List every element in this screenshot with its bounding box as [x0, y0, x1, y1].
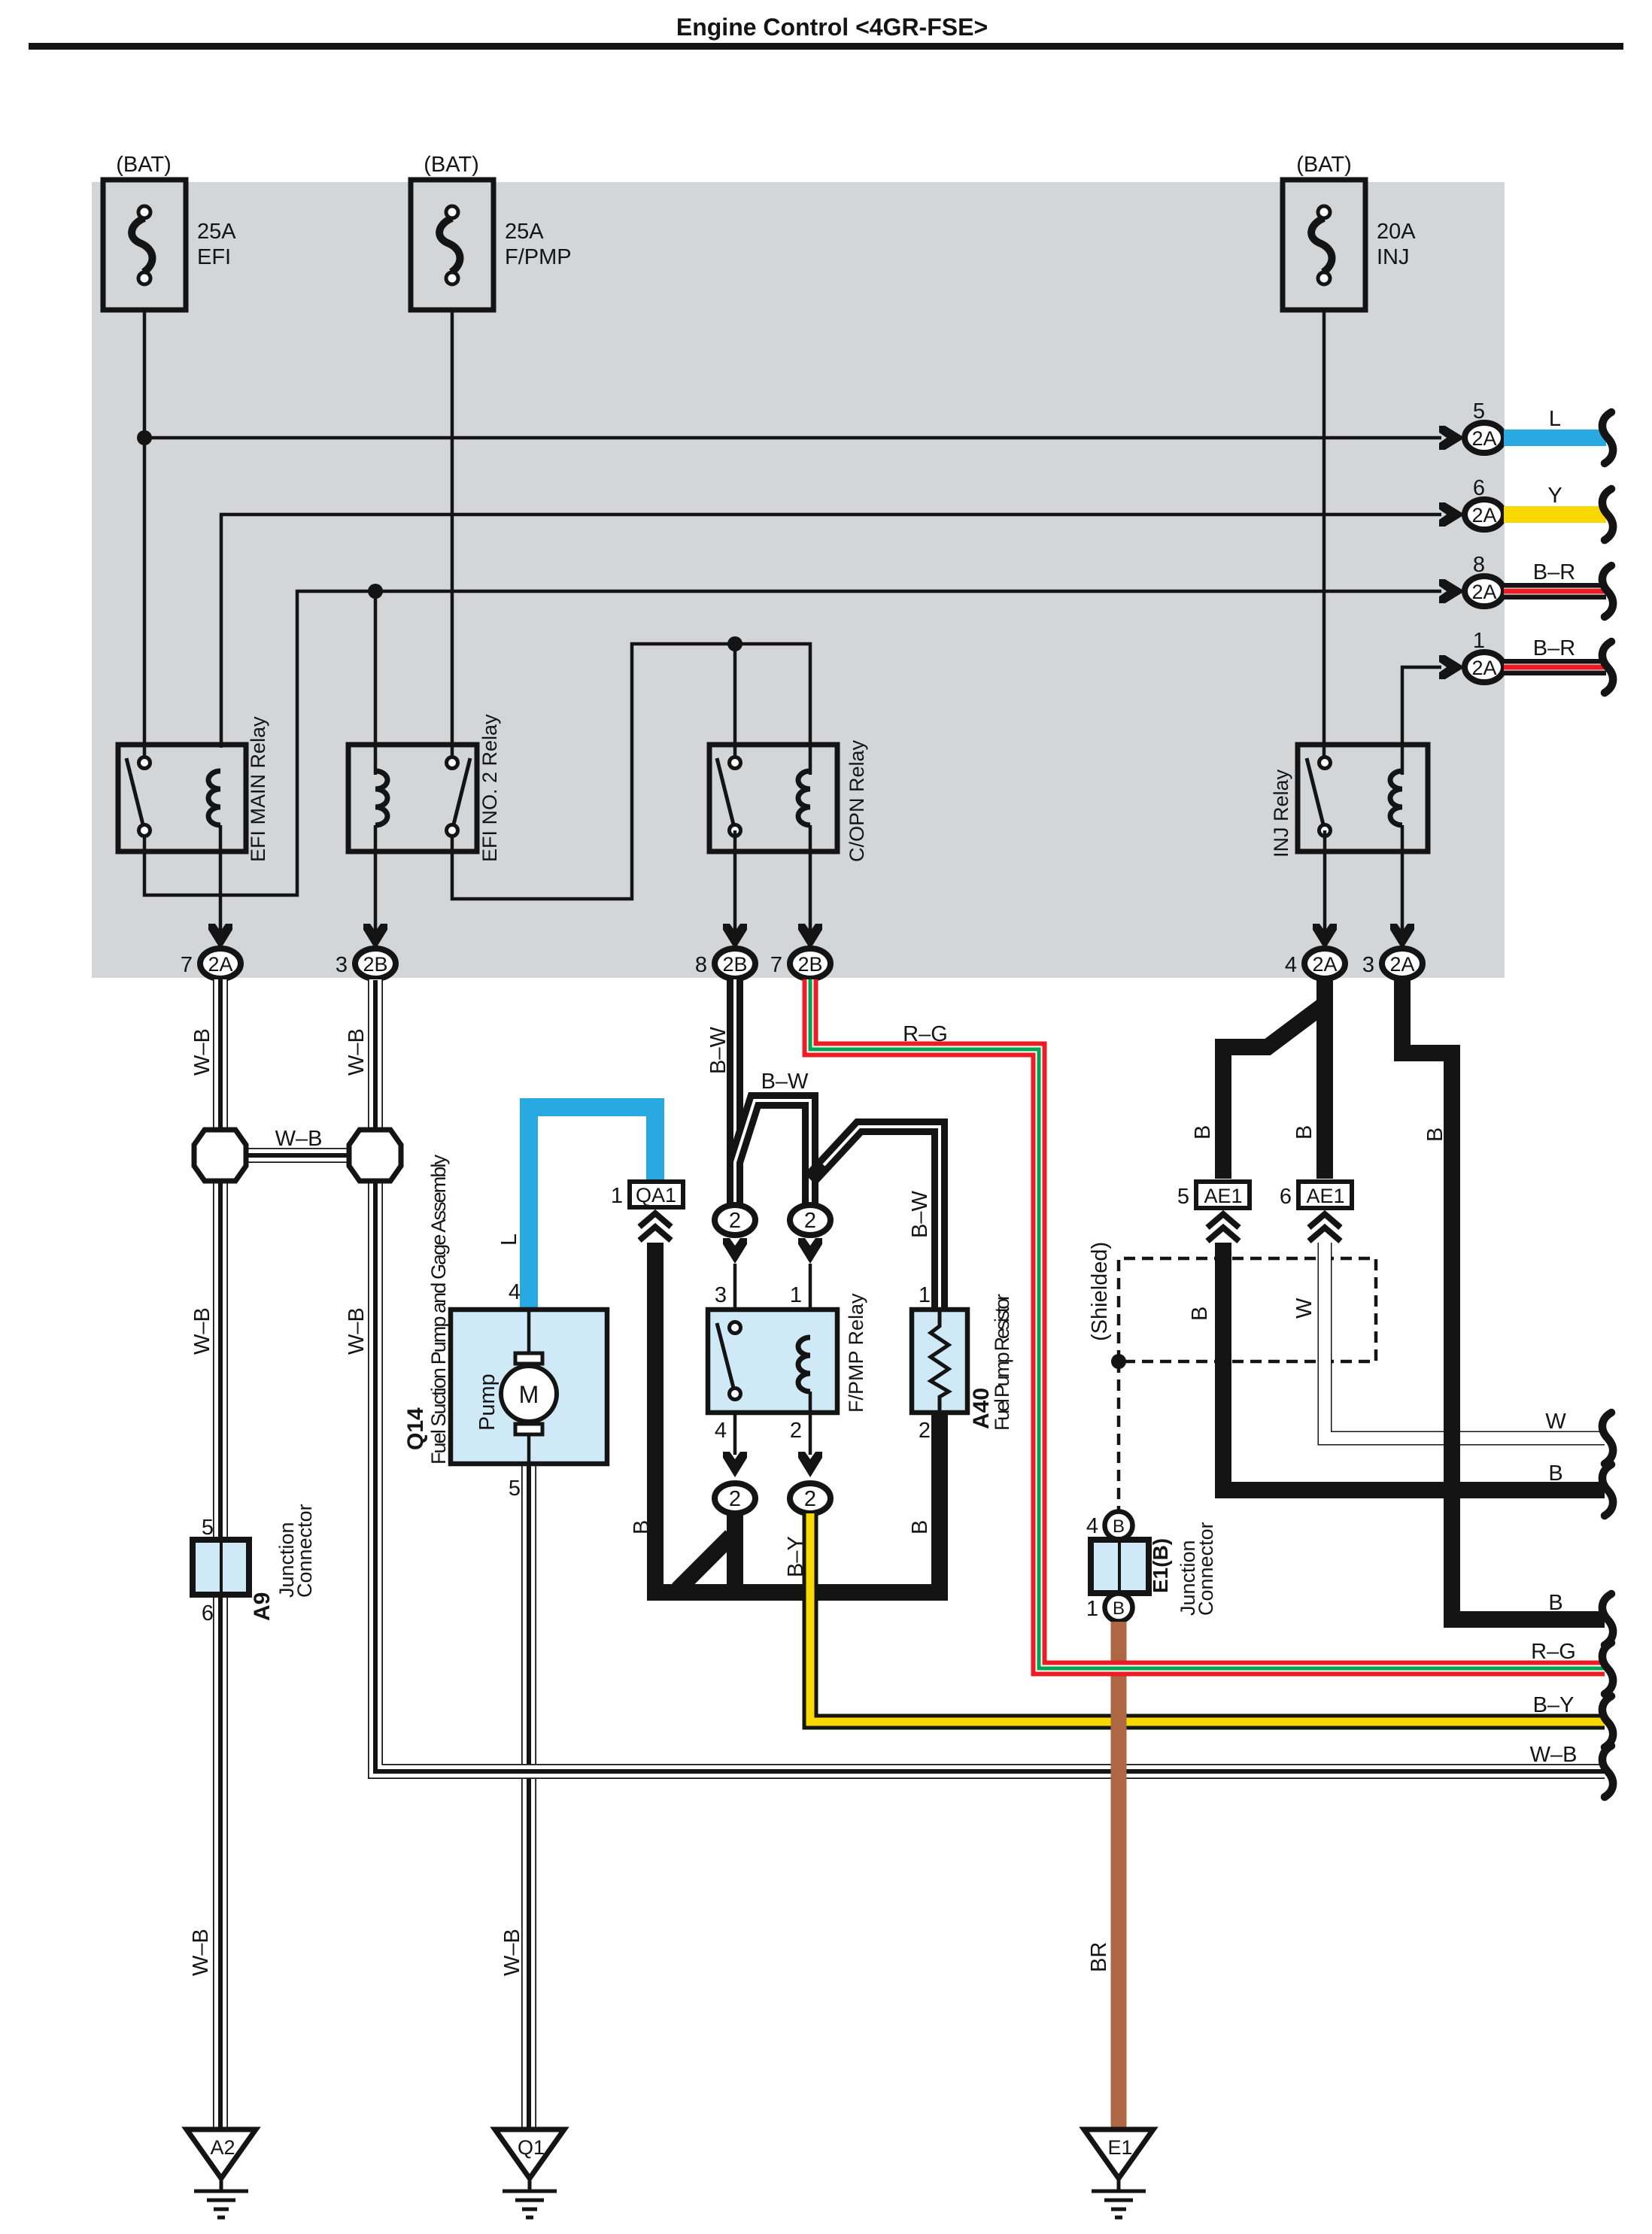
svg-text:5: 5 — [509, 1477, 521, 1501]
continuation squiggle W-B — [1602, 1746, 1613, 1797]
svg-text:1: 1 — [919, 1283, 931, 1307]
svg-text:B: B — [1292, 1125, 1316, 1140]
junction octagon right — [349, 1130, 401, 1181]
svg-text:2: 2 — [790, 1419, 802, 1443]
svg-text:8: 8 — [1473, 553, 1485, 577]
dashed shield drain wire — [1117, 1361, 1121, 1510]
connector 6 AE1 — [1298, 1182, 1352, 1208]
wire R-G from 7 2B to right edge — [810, 979, 1605, 1668]
connector oval 2 F/PMP coil bottom — [790, 1483, 831, 1513]
chevron below 5 AE1 — [1207, 1214, 1239, 1241]
svg-text:W–B: W–B — [275, 1127, 323, 1151]
svg-text:4: 4 — [1285, 953, 1297, 977]
wire INJ switch output down to 4 2A — [1323, 830, 1327, 949]
svg-text:B–Y: B–Y — [784, 1536, 808, 1577]
svg-text:2: 2 — [804, 1487, 816, 1511]
svg-text:Connector: Connector — [1195, 1522, 1217, 1616]
svg-text:2: 2 — [804, 1209, 816, 1233]
connector oval 5 2A right — [1465, 423, 1504, 453]
svg-text:Q14: Q14 — [403, 1407, 428, 1450]
svg-text:W–B: W–B — [345, 1307, 369, 1355]
svg-text:2A: 2A — [1471, 581, 1496, 603]
svg-text:B: B — [908, 1520, 932, 1534]
svg-text:Fuel Suction Pump and Gage Ass: Fuel Suction Pump and Gage Assembly — [427, 1155, 450, 1465]
continuation squiggle B-R second — [1602, 642, 1613, 693]
svg-text:W–B: W–B — [190, 1307, 214, 1355]
svg-text:EFI NO. 2 Relay: EFI NO. 2 Relay — [478, 714, 501, 862]
fuse F/PMP 25A — [411, 180, 493, 310]
arrow into oval 2 switch bottom — [723, 1452, 747, 1477]
svg-text:M: M — [519, 1381, 539, 1408]
fuse EFI 25A — [103, 180, 186, 310]
relay F/PMP — [708, 1310, 837, 1413]
svg-text:8: 8 — [695, 953, 707, 977]
wire B branch to 5 AE1 — [1223, 1004, 1325, 1179]
svg-text:5: 5 — [202, 1516, 214, 1540]
arrow into 4 2A — [1313, 924, 1337, 949]
svg-text:B–W: B–W — [908, 1191, 932, 1238]
svg-text:C/OPN Relay: C/OPN Relay — [846, 739, 868, 862]
relay INJ — [1298, 745, 1428, 851]
junction dot B-R row to EFI NO.2 coil — [368, 584, 383, 599]
svg-text:6: 6 — [1280, 1185, 1292, 1209]
connector oval 1 2A right — [1465, 652, 1504, 682]
svg-text:L: L — [497, 1234, 521, 1246]
svg-text:R–G: R–G — [903, 1022, 948, 1046]
svg-text:E1: E1 — [1107, 2136, 1132, 2159]
svg-text:(BAT): (BAT) — [424, 153, 479, 177]
connector oval 3 2A — [1382, 949, 1423, 979]
svg-text:B: B — [1191, 1125, 1215, 1140]
arrow into connector 6 2A — [1439, 502, 1465, 527]
svg-text:W: W — [1545, 1410, 1566, 1434]
connector oval 2 F/PMP switch top — [715, 1205, 755, 1235]
wire bus L row from fuse EFI to connector 5 2A — [144, 436, 1441, 440]
svg-text:5: 5 — [1473, 399, 1485, 423]
title rule bar — [29, 43, 1623, 50]
wire B-W from 8 2B down to F/PMP connector 2 — [727, 979, 743, 1212]
wire B-W branch to A40 pin 1 — [810, 1127, 940, 1313]
continuation squiggle Y — [1602, 489, 1613, 540]
svg-text:R–G: R–G — [1531, 1640, 1576, 1664]
connector oval 2 F/PMP switch bottom — [715, 1483, 755, 1513]
svg-text:4: 4 — [715, 1419, 727, 1443]
svg-text:Engine Control <4GR-FSE>: Engine Control <4GR-FSE> — [676, 14, 988, 41]
svg-text:2A: 2A — [208, 953, 232, 976]
svg-text:1: 1 — [611, 1184, 623, 1208]
svg-text:AE1: AE1 — [1306, 1185, 1344, 1207]
svg-text:6: 6 — [1473, 476, 1485, 500]
svg-text:F/PMP: F/PMP — [505, 245, 572, 269]
wire B-R black-red second — [1504, 659, 1606, 675]
wire fuse EFI down to EFI MAIN relay switch — [143, 310, 147, 758]
wire fuse INJ down to INJ relay switch — [1323, 310, 1326, 758]
svg-text:Fuel Pump Resistor: Fuel Pump Resistor — [991, 1294, 1013, 1431]
svg-text:3: 3 — [715, 1283, 727, 1307]
svg-text:Y: Y — [1547, 484, 1562, 508]
wire EFI MAIN switch output to connector 8 2A (B-R row) — [144, 591, 1441, 895]
wire C/OPN coil output down to 7 2B — [809, 851, 812, 949]
svg-text:1: 1 — [1086, 1597, 1098, 1621]
svg-text:QA1: QA1 — [636, 1184, 676, 1207]
svg-text:INJ: INJ — [1377, 245, 1410, 269]
svg-text:INJ Relay: INJ Relay — [1270, 769, 1292, 857]
svg-text:W: W — [1292, 1298, 1316, 1319]
svg-text:2: 2 — [729, 1209, 741, 1233]
wire B from QA1 down then right to A40 pin 2 — [655, 1243, 940, 1592]
connector 5 AE1 — [1196, 1182, 1250, 1208]
svg-text:2B: 2B — [363, 953, 387, 976]
wire INJ coil output down to 3 2A — [1401, 851, 1405, 949]
svg-text:Connector: Connector — [293, 1504, 316, 1598]
svg-text:EFI MAIN Relay: EFI MAIN Relay — [247, 716, 269, 862]
wire BR brown to E1 ground — [1111, 1622, 1127, 2129]
wire W-B link between junction octagons — [220, 1148, 375, 1163]
diagonal B merge strut — [678, 1536, 731, 1589]
wire L blue — [1504, 429, 1606, 446]
svg-text:A2: A2 — [210, 2136, 235, 2159]
wire B thick from 4 2A to 6 AE1 — [1316, 976, 1333, 1179]
junction dot C/OPN feed — [727, 636, 742, 651]
svg-text:Pump: Pump — [475, 1373, 500, 1431]
wire from F/PMP pin 4 down — [733, 1413, 737, 1455]
svg-text:(BAT): (BAT) — [116, 153, 172, 177]
svg-text:5: 5 — [1177, 1185, 1189, 1209]
arrow into 3 2B — [363, 924, 387, 949]
connector oval 7 2A — [200, 949, 241, 979]
continuation squiggle R-G — [1602, 1643, 1613, 1694]
svg-text:(Shielded): (Shielded) — [1088, 1242, 1112, 1341]
svg-text:B: B — [1113, 1598, 1125, 1619]
svg-text:2A: 2A — [1389, 953, 1414, 976]
ECU gray block background — [92, 182, 1505, 978]
svg-text:6: 6 — [202, 1601, 214, 1625]
shield dashed box — [1119, 1258, 1376, 1361]
svg-text:B–Y: B–Y — [1533, 1693, 1575, 1717]
arrow into connector 1 2A — [1439, 655, 1465, 679]
relay C/OPN — [709, 745, 837, 851]
arrow below oval 2 coil top — [798, 1238, 822, 1264]
junction octagon left — [194, 1130, 246, 1181]
connector oval 8 2B — [715, 949, 755, 979]
wire B-W branch to coil connector 2 — [735, 1100, 810, 1212]
svg-text:1: 1 — [790, 1283, 802, 1307]
shield junction dot — [1111, 1354, 1126, 1369]
wire B-Y from F/PMP coil bottom to right edge — [810, 1513, 1605, 1722]
svg-text:7: 7 — [770, 953, 782, 977]
label E1(B) Junction Connector — [1177, 1522, 1217, 1616]
wire EFI MAIN coil output down to 7 2A — [219, 851, 223, 949]
connector QA1 — [630, 1182, 683, 1207]
wire B-R black-red — [1504, 583, 1606, 599]
svg-text:B: B — [1548, 1462, 1562, 1486]
continuation squiggle B lower — [1602, 1594, 1613, 1645]
arrow into connector 5 2A — [1439, 426, 1465, 450]
arrow into 7 2A — [208, 924, 232, 949]
connector oval 2 F/PMP coil top — [790, 1205, 831, 1235]
continuation squiggle B upper — [1602, 1465, 1613, 1516]
label A9 Junction Connector — [275, 1504, 316, 1598]
relay EFI MAIN — [118, 745, 246, 851]
continuation squiggle L — [1602, 412, 1613, 463]
connector oval 4 2A — [1304, 949, 1345, 979]
arrow into connector 8 2A — [1439, 579, 1465, 603]
svg-text:W–B: W–B — [500, 1929, 524, 1976]
wire INJ relay coil to connector 1 2A (B-R row 2) — [1402, 667, 1441, 775]
wire C/OPN feed down to C/OPN switch — [733, 644, 737, 758]
svg-text:A9: A9 — [250, 1592, 275, 1621]
junction dot fuse EFI / L row — [137, 430, 152, 445]
fuse INJ 20A — [1283, 180, 1365, 310]
wire EFI NO.2 switch output to C/OPN relay feed — [452, 644, 810, 899]
wire B from 5 AE1 down to right edge — [1223, 1243, 1605, 1490]
svg-text:B–W: B–W — [761, 1070, 809, 1094]
chevron connector below QA1 — [639, 1213, 671, 1240]
component Q14 fuel suction pump box — [451, 1310, 607, 1464]
arrow into oval 2 coil bottom — [798, 1452, 822, 1477]
svg-text:F/PMP Relay: F/PMP Relay — [845, 1293, 867, 1413]
svg-text:3: 3 — [336, 953, 348, 977]
wire B from 3 2A jog right and down to right edge — [1402, 976, 1605, 1619]
svg-text:W–B: W–B — [190, 1028, 214, 1076]
wire W-B from 3 2B down then right to W-B edge — [375, 979, 1605, 1771]
wire EFI NO.2 coil output down to 3 2B — [374, 851, 378, 949]
svg-text:B: B — [630, 1520, 654, 1534]
svg-text:2A: 2A — [1471, 427, 1496, 450]
svg-text:L: L — [1549, 407, 1561, 431]
continuation squiggle B-Y — [1602, 1696, 1613, 1747]
relay EFI NO.2 — [348, 745, 477, 851]
svg-text:B: B — [1548, 1591, 1562, 1615]
svg-text:W–B: W–B — [345, 1028, 369, 1076]
svg-text:2: 2 — [919, 1419, 931, 1443]
wire to F/PMP pin 1 — [809, 1264, 812, 1339]
svg-text:B–W: B–W — [706, 1027, 730, 1074]
svg-text:4: 4 — [1086, 1514, 1098, 1538]
svg-text:B: B — [1188, 1307, 1212, 1321]
svg-text:1: 1 — [1473, 629, 1485, 653]
svg-text:B–R: B–R — [1533, 636, 1575, 660]
arrow into 3 2A — [1390, 924, 1414, 949]
svg-text:7: 7 — [181, 953, 193, 977]
wire fuse F/PMP down to EFI NO.2 relay switch — [451, 310, 454, 758]
chevron below 6 AE1 — [1309, 1214, 1341, 1241]
connector oval 6 2A right — [1465, 499, 1504, 530]
svg-text:2A: 2A — [1471, 504, 1496, 527]
junction connector A9 — [193, 1540, 249, 1595]
wire from F/PMP pin 2 down — [809, 1413, 812, 1455]
svg-text:2A: 2A — [1471, 657, 1496, 679]
ground Q1 — [495, 2129, 564, 2217]
connector oval 7 2B — [790, 949, 831, 979]
svg-text:W–B: W–B — [189, 1929, 213, 1976]
wire Y yellow — [1504, 506, 1606, 523]
arrow below oval 2 switch top — [723, 1238, 747, 1264]
wire B stub below connector 2 of F/PMP switch — [727, 1512, 743, 1587]
svg-text:4: 4 — [509, 1280, 521, 1304]
svg-text:2B: 2B — [797, 953, 822, 976]
wire L blue from Q14 pin 4 to QA1 — [529, 1107, 655, 1312]
svg-text:3: 3 — [1362, 953, 1374, 977]
continuation squiggle B-R — [1602, 566, 1613, 617]
wire B-R row down to EFI NO.2 relay coil — [374, 591, 378, 775]
svg-text:2B: 2B — [722, 953, 747, 976]
junction connector E1(B) — [1091, 1512, 1149, 1622]
svg-text:2A: 2A — [1312, 953, 1337, 976]
connector oval 8 2A right — [1465, 576, 1504, 606]
svg-text:BR: BR — [1087, 1942, 1111, 1972]
wire W-B from 7 2A down to A2 ground — [213, 979, 228, 2129]
svg-text:20A: 20A — [1377, 220, 1416, 244]
svg-text:25A: 25A — [505, 220, 544, 244]
ground A2 — [187, 2129, 256, 2217]
svg-text:B–R: B–R — [1533, 560, 1575, 584]
wire W from 6 AE1 down to right edge — [1325, 1243, 1605, 1438]
svg-text:B: B — [1113, 1516, 1125, 1537]
svg-text:Q1: Q1 — [518, 2136, 545, 2159]
continuation squiggle W — [1602, 1413, 1613, 1464]
wire C/OPN switch output down to 8 2B — [733, 830, 737, 949]
wire to F/PMP pin 3 — [733, 1264, 737, 1322]
arrow into 8 2B — [723, 924, 747, 949]
arrow into 7 2B — [798, 924, 822, 949]
wire W-B pump to Q1 ground — [521, 1464, 536, 2129]
svg-text:W–B: W–B — [1530, 1743, 1578, 1767]
component A40 fuel pump resistor — [912, 1310, 967, 1413]
svg-text:25A: 25A — [197, 220, 236, 244]
connector oval 3 2B — [355, 949, 396, 979]
svg-text:(BAT): (BAT) — [1296, 153, 1352, 177]
svg-text:AE1: AE1 — [1204, 1185, 1242, 1207]
svg-text:EFI: EFI — [197, 245, 231, 269]
ground E1 — [1084, 2129, 1153, 2217]
wire EFI MAIN coil to connector 6 2A (Y row) — [221, 514, 1441, 748]
svg-text:2: 2 — [729, 1487, 741, 1511]
svg-text:E1(B): E1(B) — [1149, 1538, 1172, 1593]
